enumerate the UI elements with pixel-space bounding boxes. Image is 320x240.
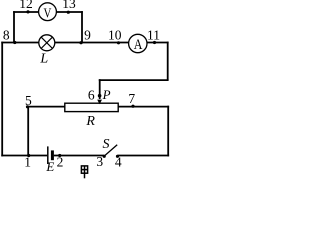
- wire voltmeter row top: [13, 11, 83, 13]
- wire right vertical of voltmeter branch: [81, 11, 83, 43]
- wire rheostat row right: [118, 106, 169, 108]
- svg-text:4: 4: [115, 154, 122, 169]
- svg-text:7: 7: [128, 91, 135, 106]
- label jia (Chinese character): [81, 166, 87, 178]
- node 13: [67, 11, 70, 14]
- node 5: [26, 105, 29, 108]
- svg-text:10: 10: [108, 28, 122, 43]
- battery E short plate: [51, 150, 54, 160]
- node 7: [131, 105, 134, 108]
- svg-text:5: 5: [25, 93, 32, 108]
- wire right rail lower: [167, 106, 169, 157]
- node 1: [27, 154, 30, 157]
- node 2: [58, 154, 61, 157]
- wire bottom left to battery: [1, 155, 47, 157]
- svg-text:3: 3: [96, 154, 103, 169]
- rheostat R box: [65, 103, 118, 111]
- node junction 8 branch: [13, 41, 16, 44]
- slider arrowhead P: [97, 100, 102, 105]
- wire connector to slider: [99, 79, 169, 81]
- node 3: [103, 155, 106, 158]
- wire rheostat row left: [27, 106, 66, 108]
- wire left vertical of voltmeter branch: [13, 11, 15, 43]
- node 10: [117, 41, 120, 44]
- svg-text:S: S: [103, 137, 110, 152]
- svg-text:8: 8: [3, 27, 10, 42]
- svg-text:11: 11: [147, 28, 160, 43]
- wire slider stem: [99, 79, 101, 99]
- svg-text:12: 12: [19, 0, 33, 11]
- svg-text:E: E: [45, 159, 54, 174]
- svg-text:13: 13: [62, 0, 76, 11]
- svg-text:A: A: [134, 36, 143, 53]
- wire lamp row: [1, 42, 168, 44]
- svg-text:P: P: [102, 87, 111, 102]
- node 6: [98, 94, 102, 98]
- voltmeter V: [39, 3, 57, 21]
- wire left rail: [1, 42, 3, 157]
- battery E long plate: [47, 146, 49, 164]
- wire battery to switch: [54, 155, 104, 157]
- svg-text:6: 6: [88, 87, 95, 102]
- svg-text:L: L: [39, 52, 48, 67]
- svg-text:1: 1: [24, 154, 31, 169]
- svg-text:V: V: [43, 5, 51, 21]
- ammeter A: [129, 34, 147, 52]
- node 9 junction: [79, 41, 82, 44]
- node 12: [26, 10, 29, 13]
- wire switch to bottom right corner: [118, 155, 170, 157]
- svg-text:2: 2: [57, 154, 64, 169]
- switch S blade: [104, 145, 117, 156]
- node 11: [153, 41, 156, 44]
- lamp L: [39, 35, 55, 51]
- wire right rail upper: [167, 42, 169, 81]
- wire node5 to node1 vertical: [27, 107, 29, 156]
- svg-text:R: R: [85, 114, 95, 129]
- svg-text:9: 9: [84, 27, 91, 42]
- node 4: [116, 155, 119, 158]
